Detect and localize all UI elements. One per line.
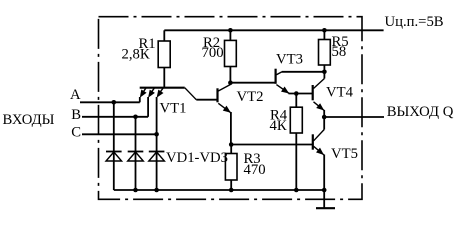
wire VT2 emitter node to VT5 base	[231, 144, 313, 146]
resistor R5	[319, 30, 331, 72]
arrowhead VT2 emitter	[223, 106, 231, 113]
svg-text:A: A	[70, 87, 81, 103]
svg-text:VT2: VT2	[237, 89, 264, 105]
transistor VT1 (multi-emitter)	[140, 88, 197, 190]
svg-text:B: B	[71, 107, 81, 123]
arrowhead VT1 emitter 2	[148, 90, 155, 98]
input wire B	[82, 116, 148, 118]
resistor R2	[225, 30, 237, 84]
arrowhead VT3 emitter	[281, 87, 289, 94]
junction dot rail-R2	[228, 28, 233, 33]
svg-text:58: 58	[332, 44, 347, 60]
svg-text:2,8К: 2,8К	[122, 47, 150, 63]
junction dot rail-VD3	[154, 188, 159, 193]
wire VT1 collector to VT2 base	[196, 99, 217, 101]
junction dot wire B to VD2	[133, 115, 138, 120]
IC dash-dot border	[99, 17, 363, 200]
arrowhead VT5 emitter	[316, 148, 324, 155]
svg-text:VT3: VT3	[276, 52, 303, 68]
wire output node down to VT5 collector	[323, 117, 325, 130]
wire B node to diode VD2	[135, 117, 137, 190]
junction dot wire C to VD3	[154, 132, 159, 137]
bottom emitter rail	[114, 189, 324, 191]
input wire C	[82, 133, 157, 135]
junction dot VT3 emitter / R4 / VT4 base	[294, 91, 299, 96]
svg-text:VT5: VT5	[331, 146, 358, 162]
svg-text:VT4: VT4	[326, 84, 354, 100]
ground bar	[316, 207, 335, 209]
emitter arrowheads VT1	[112, 28, 327, 192]
diode VD3	[149, 152, 165, 162]
junction dot rail-ground	[322, 188, 327, 193]
svg-text:VT1: VT1	[160, 101, 187, 117]
svg-text:ВХОДЫ: ВХОДЫ	[3, 112, 55, 128]
input wire A	[80, 101, 140, 103]
junction dot VT2 collector node	[228, 80, 233, 85]
diode VD1	[106, 152, 122, 162]
transistor VT3	[276, 69, 290, 94]
transistor VT2	[218, 85, 231, 145]
svg-text:4К: 4К	[270, 118, 287, 134]
svg-text:C: C	[71, 124, 81, 140]
resistor R1	[158, 30, 170, 87]
transistor VT4	[313, 72, 325, 117]
junction dot rail-R3	[229, 188, 234, 193]
wire A node to diode VD1	[113, 102, 115, 190]
transistor VT5	[313, 130, 324, 191]
junction dot rail-R4	[294, 188, 299, 193]
wire VT3 emitter to VT4 base (node with R4)	[289, 93, 313, 95]
junction dot VT2 emitter / R3 / VT5 base	[229, 142, 234, 147]
wire VT3 collector to R5/VT4 node	[282, 71, 325, 73]
arrowhead VT4 emitter	[316, 103, 324, 110]
ground lead	[323, 190, 325, 208]
junction dot rail-VD2	[133, 188, 138, 193]
arrowhead VT1 emitter 3	[157, 90, 164, 98]
resistor R3	[225, 145, 237, 191]
svg-text:ВЫХОД Q: ВЫХОД Q	[387, 104, 454, 120]
resistor R4	[290, 94, 302, 191]
svg-text:470: 470	[244, 162, 266, 178]
svg-text:Uц.п.=5В: Uц.п.=5В	[385, 14, 444, 30]
junction dot output node	[322, 115, 327, 120]
diode VD2	[128, 152, 144, 162]
svg-text:VD1-VD3: VD1-VD3	[166, 150, 228, 166]
junction dot wire A to VD1	[112, 100, 117, 105]
output wire	[324, 116, 384, 118]
wire VT2 collector to VT3 base	[230, 82, 275, 84]
junction dot R5-VT3 collector	[322, 70, 327, 75]
junction dot rail-R5	[322, 28, 327, 33]
Vcc rail	[164, 29, 383, 31]
arrowhead VT1 emitter 1	[140, 90, 147, 98]
svg-text:700: 700	[202, 45, 224, 61]
